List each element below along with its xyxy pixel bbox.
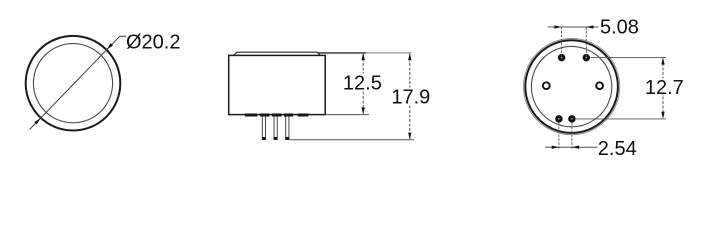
svg-text:Ø20.2: Ø20.2 (126, 32, 180, 54)
diameter arrow lower-left (34, 118, 40, 125)
arrow 2.54 right (572, 146, 579, 149)
svg-text:5.08: 5.08 (600, 16, 639, 38)
pin mid-left open (543, 82, 550, 89)
bottom view rim circle (524, 39, 620, 135)
diameter arrow upper-right (107, 43, 113, 50)
pin top-right (583, 54, 591, 62)
top view inner circle (33, 44, 112, 123)
side view cap top (234, 52, 321, 55)
arrow 5.08 right (586, 25, 593, 28)
extension line top light part (366, 52, 412, 54)
dimension line 12.7 (662, 59, 664, 118)
side view pin 2 (274, 115, 277, 140)
side view pin 3 (286, 115, 289, 140)
bottom view inner circle (531, 46, 611, 126)
pin mid-right open (596, 82, 603, 89)
dimension line 5.08 (548, 26, 599, 28)
arrow 12.5 top (362, 53, 365, 60)
extension line 12.7 bottom (576, 118, 666, 120)
pin bottom-right (568, 115, 576, 123)
side view pin 1 (262, 115, 265, 140)
arrow 12.7 top (661, 57, 664, 64)
dimension line 17.9 (409, 54, 411, 139)
arrow 12.5 bottom (362, 107, 365, 114)
extension line body bottom (326, 114, 369, 116)
diameter line (30, 36, 127, 129)
arrow 12.7 bottom (661, 112, 664, 119)
arrow 17.9 top (408, 53, 411, 60)
extension line 12.7 top (591, 56, 667, 58)
dimension line 2.54 (545, 146, 598, 148)
extension lines 5.08 (562, 27, 587, 57)
top view outer circle (26, 36, 121, 131)
svg-text:12.5: 12.5 (343, 73, 382, 95)
arrow 17.9 bottom (408, 133, 411, 140)
arrow 2.54 left (552, 146, 559, 149)
pin top-left (558, 54, 566, 62)
bottom view outer circle (525, 40, 618, 133)
arrow 5.08 left (554, 25, 561, 28)
side view bottom flange dashes (245, 114, 309, 117)
extension line top dark part (318, 52, 366, 54)
dimension line 12.5 (362, 54, 364, 113)
svg-text:17.9: 17.9 (391, 87, 430, 109)
side view body (229, 55, 326, 114)
extension lines 2.54 (559, 123, 572, 150)
extension line pin bottom (290, 139, 415, 141)
svg-text:12.7: 12.7 (645, 77, 684, 99)
pin bottom-left (555, 115, 563, 123)
svg-text:2.54: 2.54 (598, 138, 637, 160)
